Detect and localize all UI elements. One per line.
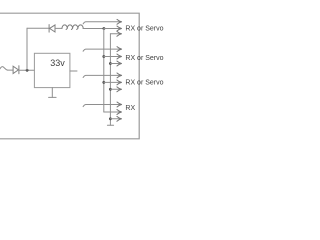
connector 2 power arrow xyxy=(104,56,121,58)
svg-text:33v: 33v xyxy=(50,58,65,68)
ground symbol (below regulator) xyxy=(49,96,57,98)
wire: squiggle to diode D1 xyxy=(8,69,14,71)
junction dot ground bus connector 4 xyxy=(109,117,112,120)
connector 4 power arrow (bus corner) xyxy=(104,111,121,113)
connector 4 signal arrow xyxy=(83,105,121,107)
connector 3 ground arrow xyxy=(110,88,121,90)
svg-text:RX: RX xyxy=(125,105,135,112)
battery lead squiggle xyxy=(0,67,8,70)
junction dot +V bus connector 3 xyxy=(102,81,105,84)
regulator ground stem xyxy=(51,88,53,98)
connector 4 ground arrow xyxy=(110,118,121,120)
ground bus (vertical) xyxy=(109,34,111,125)
wire: top rail corner to diode D2 xyxy=(27,27,49,29)
wire: D2 to inductor L1 xyxy=(55,27,62,29)
wire: node A up to top rail corner xyxy=(26,28,28,70)
svg-text:RX or Servo: RX or Servo xyxy=(125,79,163,86)
ground symbol (bus bottom) xyxy=(107,124,113,126)
connector 3 signal arrow xyxy=(83,75,121,77)
regulator right stub xyxy=(70,70,77,72)
wire: L1 to +V bus junction xyxy=(83,28,104,30)
frame border xyxy=(0,13,139,139)
wire: D1 to node A xyxy=(19,69,35,71)
connector 3 power arrow xyxy=(104,81,121,83)
svg-text:RX or Servo: RX or Servo xyxy=(125,26,163,33)
connector 1 power arrow xyxy=(104,28,121,30)
regulator U1 box xyxy=(34,53,70,87)
inductor L1 xyxy=(62,25,83,30)
node A junction dot xyxy=(26,69,29,72)
junction dot +V bus top xyxy=(103,27,106,30)
connector 2 signal arrow xyxy=(83,49,121,51)
svg-text:RX or Servo: RX or Servo xyxy=(125,55,163,62)
connector 2 ground arrow xyxy=(110,63,121,65)
diode D2 (points left, cathode bar left) xyxy=(49,25,55,32)
+V bus (vertical) xyxy=(103,29,105,113)
connector 1 signal arrow xyxy=(83,22,121,24)
junction dot +V bus connector 2 xyxy=(102,55,105,58)
junction dot ground bus connector 2 xyxy=(109,62,112,65)
junction dot ground bus connector 3 xyxy=(109,88,112,91)
diode D1 (points right, cathode bar right) xyxy=(13,66,19,74)
connector 1 ground arrow (from bus top corner) xyxy=(110,33,121,35)
